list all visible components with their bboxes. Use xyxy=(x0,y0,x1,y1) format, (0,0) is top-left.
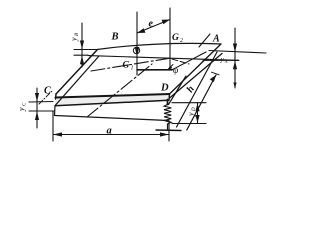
vertical line through G1 (e left extension) xyxy=(136,12,138,75)
plate bottom back edge xyxy=(88,56,238,61)
D dim lower level line xyxy=(172,123,206,125)
C dim lower level line xyxy=(29,110,55,112)
axis horizontal M2 xyxy=(137,69,172,71)
e dimension line slanted xyxy=(137,20,170,34)
a left arrowhead xyxy=(53,132,62,136)
steep diagonal DgA (h reference) xyxy=(169,76,187,105)
A dim vertical line xyxy=(234,28,236,88)
svg-text:e: e xyxy=(149,19,154,30)
G1 arrowhead down xyxy=(135,47,140,57)
svg-text:G: G xyxy=(172,33,179,43)
D dim lower arrow down xyxy=(195,115,199,123)
displaced front line C to spring xyxy=(55,116,168,121)
A dim bottom end arrow xyxy=(233,83,236,89)
h arrowhead xyxy=(210,75,216,82)
svg-text:φ: φ xyxy=(173,66,178,76)
B dim upper level extension xyxy=(74,49,97,51)
svg-text:C: C xyxy=(44,86,51,97)
A dim upper arrow down xyxy=(233,44,237,53)
svg-text:A: A xyxy=(212,34,220,45)
C dim upper level line xyxy=(29,101,53,104)
a right arrowhead xyxy=(160,132,169,136)
plate front-right corner vertical xyxy=(168,94,171,100)
B dim vertical line xyxy=(81,23,83,67)
svg-text:G: G xyxy=(123,61,130,71)
short dash continuation xyxy=(172,59,189,64)
svg-text:2: 2 xyxy=(180,38,183,44)
corner overshoot stroke at A xyxy=(199,34,210,47)
label yB rotated xyxy=(70,33,81,42)
svg-text:B: B xyxy=(111,32,119,43)
svg-text:1: 1 xyxy=(131,66,134,72)
A dim upper level extension xyxy=(209,51,266,54)
D dim vertical line xyxy=(197,103,199,124)
dash-dot edge extension below C xyxy=(39,91,52,104)
steep diagonal DgB xyxy=(177,52,218,127)
svg-text:B: B xyxy=(75,33,80,36)
A dim lower level extension xyxy=(203,59,239,61)
vertical line through G2 (e right extension) xyxy=(169,8,171,70)
tick at h arrow tip xyxy=(212,72,220,75)
C corner drop line xyxy=(54,106,57,116)
D dim upper arrow up xyxy=(195,103,199,111)
svg-text:y: y xyxy=(70,37,79,42)
svg-text:D: D xyxy=(192,107,197,112)
plate bottom-right receding edge xyxy=(169,54,222,99)
D dim upper level line xyxy=(172,102,206,104)
dash-dot axis M1 rising xyxy=(91,58,171,71)
e right arrowhead xyxy=(162,20,171,25)
a dim right extension xyxy=(168,121,170,142)
svg-text:a: a xyxy=(107,126,112,137)
svg-text:A: A xyxy=(224,59,228,64)
label yC rotated xyxy=(17,102,28,112)
A dim lower arrow up xyxy=(233,61,237,70)
plate top-face back edge B-A xyxy=(97,43,221,49)
svg-text:y: y xyxy=(17,107,26,112)
spring top stub xyxy=(167,100,169,105)
front face strip shading xyxy=(55,94,170,106)
B dim lower arrow up xyxy=(80,56,84,64)
svg-text:y: y xyxy=(187,112,196,117)
B dim lower level extension xyxy=(74,54,88,56)
plate top-face front edge C-D xyxy=(56,94,170,98)
plate front-left corner vertical xyxy=(55,94,58,99)
spring zigzag xyxy=(164,105,171,125)
label yD rotated xyxy=(187,107,198,117)
long dash-dot diagonal through plate xyxy=(87,64,152,117)
plate bottom-left receding edge xyxy=(55,56,99,106)
plate front bottom edge xyxy=(55,100,169,105)
G1 point circle xyxy=(133,47,139,53)
h dimension arrow line DgC xyxy=(187,75,216,130)
svg-text:D: D xyxy=(160,83,169,94)
plate top-face left receding edge C-B xyxy=(56,50,97,94)
C dim upper arrow down xyxy=(35,93,39,102)
spring ground line xyxy=(156,129,181,132)
a dimension line xyxy=(53,134,169,136)
C dim vertical line xyxy=(36,88,38,128)
e left arrowhead xyxy=(137,28,146,33)
axis M3 rising to A knot xyxy=(172,52,206,70)
B dim upper arrow down xyxy=(80,41,84,50)
spring bottom stub xyxy=(167,124,169,130)
C dim lower arrow up xyxy=(35,112,39,121)
a dim left extension xyxy=(52,111,54,141)
plate top-face right receding edge D-A xyxy=(170,44,222,94)
phi angle small arrow xyxy=(169,65,174,69)
